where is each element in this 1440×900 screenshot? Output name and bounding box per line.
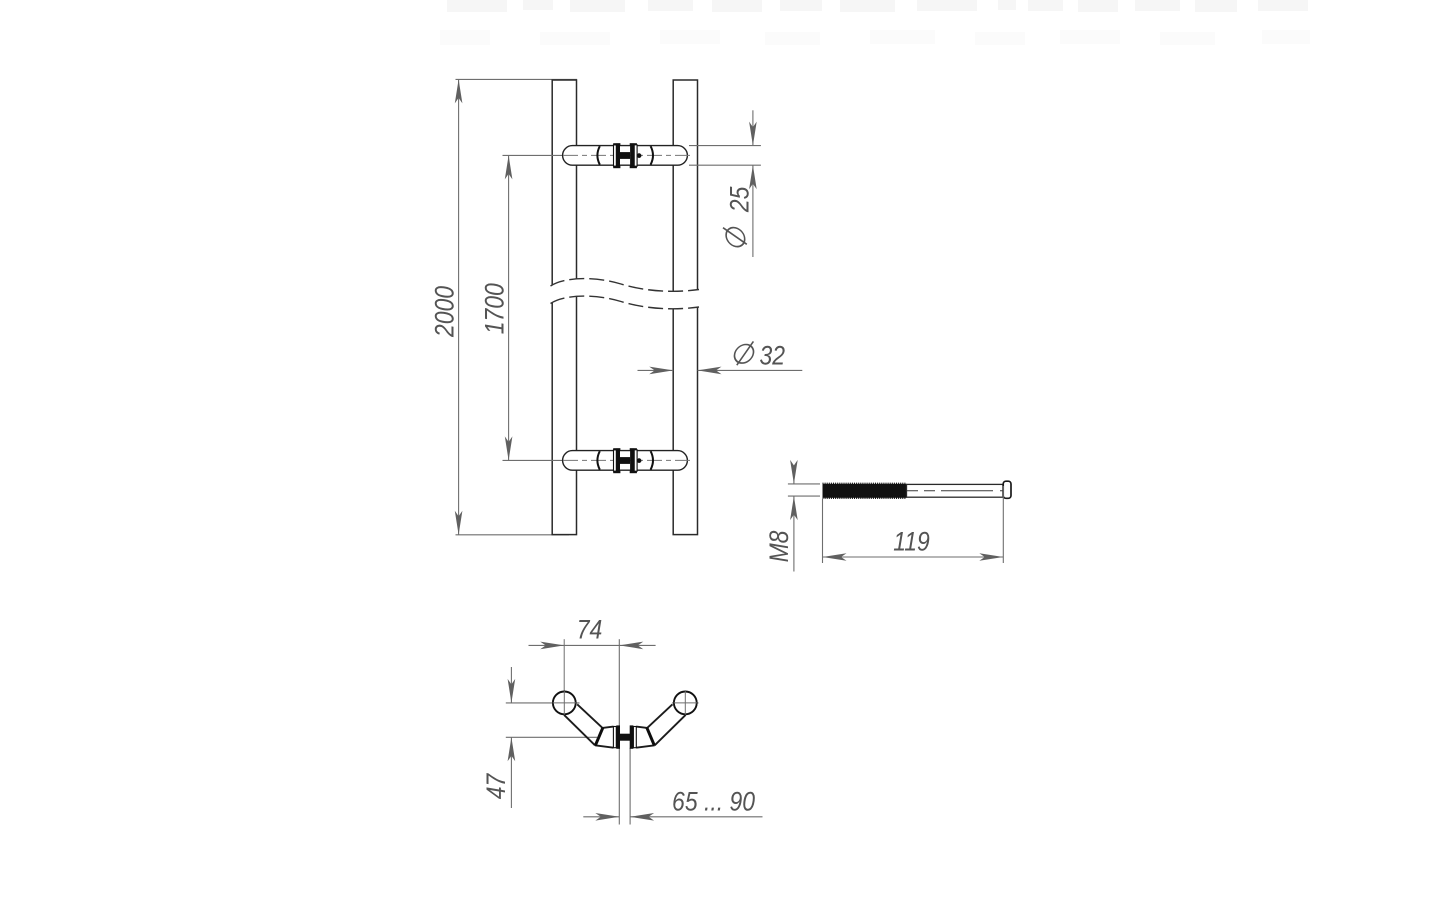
svg-text:1700: 1700 [480, 283, 510, 334]
svg-text:119: 119 [893, 527, 930, 557]
svg-text:2000: 2000 [430, 286, 460, 338]
svg-text:25: 25 [725, 187, 755, 213]
svg-text:32: 32 [760, 341, 786, 371]
svg-text:M8: M8 [764, 531, 794, 563]
svg-text:65 ... 90: 65 ... 90 [672, 787, 755, 817]
svg-text:74: 74 [577, 615, 603, 645]
svg-text:47: 47 [481, 773, 511, 799]
